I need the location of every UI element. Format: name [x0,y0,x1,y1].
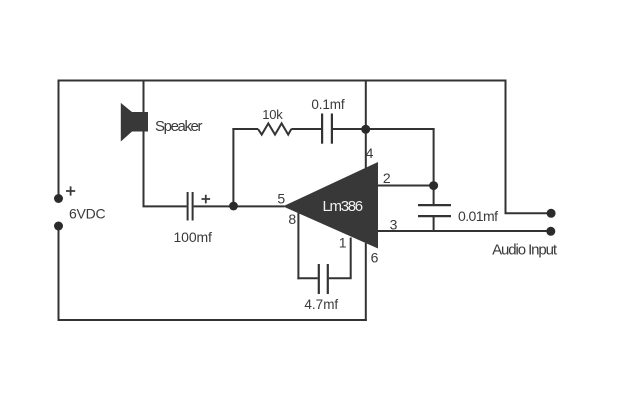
svg-text:100mf: 100mf [174,229,212,245]
audio input lower terminal dot [546,227,555,236]
svg-text:Speaker: Speaker [155,118,203,135]
speaker symbol [121,103,148,142]
svg-text:Lm386: Lm386 [322,198,363,215]
wire top rail [59,80,506,82]
svg-text:4.7mf: 4.7mf [304,297,338,312]
svg-text:2: 2 [383,170,391,186]
capacitor 4.7mf plates [319,264,328,294]
capacitor 0.01mf plates [418,205,451,216]
wire pin 8 vertical [297,212,299,279]
wire 100mf right plate to op-amp pin 5 [194,205,285,207]
wire pin 2 horizontal [377,185,435,187]
svg-text:4: 4 [366,145,374,161]
wire bottom rail [58,319,367,321]
wire 0.01mf bottom plate to pin 3 line [433,217,435,233]
wire left rail lower (battery - lead) [58,226,60,321]
wire right rail horizontal to audio input terminal [505,212,552,214]
svg-text:5: 5 [277,191,285,207]
audio input upper terminal dot [547,209,556,218]
wire pin 3 horizontal to audio input [377,230,551,232]
svg-text:6: 6 [371,250,379,266]
battery polarity plus [66,186,75,195]
svg-text:6VDC: 6VDC [69,205,106,221]
capacitor 100mf plates [188,192,193,221]
svg-text:1: 1 [339,234,347,250]
capacitor 0.1mf plates [322,114,332,144]
wire 4.7mf right lead [329,238,351,279]
svg-text:0.1mf: 0.1mf [311,97,344,112]
resistor 10k zigzag [258,123,291,134]
wire 4.7mf left lead [297,277,317,279]
wire left rail upper (battery + lead) [58,80,60,196]
svg-text:Audio Input: Audio Input [492,242,558,259]
junction dot at pin 4 node [361,125,370,134]
op-amp U1 Lm386 triangle [283,162,378,249]
wire pin 4 vertical [365,80,367,173]
wire speaker corner to 100mf left plate [143,205,187,207]
svg-text:8: 8 [288,211,296,227]
wire 0.1mf right plate to pin2 branch corner [332,128,435,130]
junction dot at pin 2 node [429,181,438,190]
svg-text:10k: 10k [262,107,283,122]
wire feedback vertical [232,128,234,206]
wire speaker drop [143,80,145,208]
wire branch vertical to 0.01mf top plate [433,128,435,205]
wire resistor to 0.1mf left plate [291,128,322,130]
svg-text:0.01mf: 0.01mf [458,208,498,224]
polarity plus of 100mf [202,195,211,204]
svg-text:3: 3 [390,216,398,232]
wire right rail vertical [505,80,507,214]
junction dot at 100mf output node [229,202,238,211]
wire pin 6 to bottom rail [365,243,367,321]
battery positive terminal dot [54,194,63,203]
wire feedback horizontal to resistor [232,128,258,130]
battery negative terminal dot [54,222,63,231]
